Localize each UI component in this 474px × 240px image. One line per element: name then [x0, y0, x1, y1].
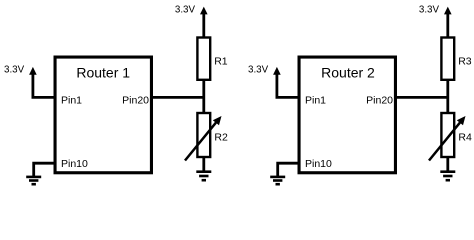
router U2 box (Router 2)	[299, 57, 395, 173]
ground symbol at Pin10 (Router 1)	[26, 177, 41, 184]
resistor R2 (variable)	[197, 113, 210, 157]
wire Pin1 to 3.3V supply (Router 1)	[33, 74, 55, 97]
wire Pin20 to divider node B (Router 2)	[396, 96, 448, 99]
wire R2 to ground (Router 1)	[202, 157, 205, 172]
svg-text:3.3V: 3.3V	[175, 5, 196, 16]
variable-resistor arrow of R2	[185, 122, 216, 160]
resistor R4 (variable)	[441, 113, 454, 157]
wire Pin10 to ground (Router 1)	[34, 163, 55, 176]
svg-text:R3: R3	[458, 56, 472, 68]
wire Pin1 to 3.3V supply (Router 2)	[277, 74, 299, 97]
ground symbol below R2 (Router 1)	[196, 172, 211, 181]
svg-text:3.3V: 3.3V	[419, 5, 440, 16]
svg-text:Pin10: Pin10	[305, 158, 332, 170]
wire R4 to ground (Router 2)	[446, 157, 449, 172]
svg-text:R1: R1	[214, 56, 228, 68]
ground symbol at Pin10 (Router 2)	[270, 177, 285, 184]
wire R1 top to 3.3V arrow (Router 1)	[202, 14, 205, 38]
variable-resistor arrow of R4	[429, 122, 460, 160]
svg-text:3.3V: 3.3V	[4, 65, 25, 76]
wire divider node A vertical R1-R2 (Router 1)	[202, 80, 205, 114]
wire Pin20 to divider node A (Router 1)	[152, 96, 204, 99]
power 3.3V arrow symbol at Pin1 (Router 2)	[273, 67, 281, 75]
resistor R3	[441, 38, 454, 80]
router U1 box (Router 1)	[55, 57, 151, 173]
power 3.3V arrow symbol above R1 (Router 1)	[200, 7, 208, 15]
svg-text:Pin1: Pin1	[61, 95, 82, 107]
ground symbol below R4 (Router 2)	[440, 172, 455, 181]
wire Pin10 to ground (Router 2)	[278, 163, 299, 176]
svg-text:Pin1: Pin1	[305, 95, 326, 107]
svg-text:Pin20: Pin20	[122, 95, 149, 107]
wire R3 top to 3.3V arrow (Router 2)	[446, 14, 449, 38]
svg-text:Pin20: Pin20	[366, 95, 393, 107]
resistor R1	[197, 38, 210, 80]
svg-text:Router 1: Router 1	[76, 65, 130, 81]
svg-text:R4: R4	[458, 132, 472, 144]
power 3.3V arrow symbol at Pin1 (Router 1)	[29, 67, 37, 75]
svg-text:R2: R2	[214, 132, 228, 144]
svg-text:Router 2: Router 2	[321, 65, 375, 81]
power 3.3V arrow symbol above R3 (Router 2)	[444, 7, 452, 15]
svg-text:Pin10: Pin10	[61, 158, 88, 170]
wire divider node B vertical R3-R4 (Router 2)	[446, 80, 449, 114]
svg-text:3.3V: 3.3V	[248, 65, 269, 76]
